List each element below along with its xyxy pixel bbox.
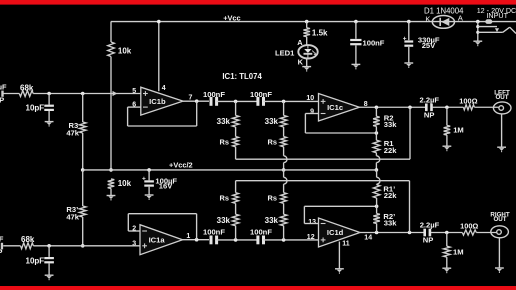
svg-text:+: + (142, 175, 146, 182)
svg-text:5: 5 (132, 88, 136, 95)
svg-text:Rs: Rs (268, 194, 277, 203)
svg-text:2.2µF: 2.2µF (420, 96, 440, 105)
svg-text:22k: 22k (384, 191, 397, 200)
svg-text:16V: 16V (159, 181, 173, 190)
svg-text:NP: NP (423, 236, 434, 245)
svg-text:K: K (425, 14, 430, 23)
svg-text:10k: 10k (118, 47, 132, 56)
svg-text:22k: 22k (384, 146, 397, 155)
svg-text:NP: NP (424, 111, 435, 120)
svg-text:68k: 68k (21, 235, 35, 244)
svg-text:10pF: 10pF (26, 256, 45, 265)
svg-text:Rs: Rs (220, 194, 229, 203)
svg-text:IC1a: IC1a (149, 235, 166, 244)
svg-text:K: K (298, 57, 304, 66)
svg-text:100Ω: 100Ω (459, 96, 477, 105)
svg-text:1M: 1M (453, 247, 464, 256)
svg-text:D1 1N4004: D1 1N4004 (424, 7, 464, 16)
svg-text:IP: IP (0, 96, 4, 105)
svg-text:100nF: 100nF (250, 90, 272, 99)
svg-text:OUT: OUT (495, 94, 508, 101)
svg-text:IC1: TL074: IC1: TL074 (222, 72, 262, 81)
svg-text:Rs: Rs (268, 138, 277, 147)
svg-text:100Ω: 100Ω (460, 222, 478, 231)
svg-text:33k: 33k (384, 219, 397, 228)
svg-text:100nF: 100nF (250, 227, 272, 236)
svg-text:1.5k: 1.5k (312, 29, 328, 38)
svg-text:33k: 33k (265, 216, 279, 225)
svg-text:33k: 33k (217, 117, 231, 126)
svg-text:+Vcc: +Vcc (223, 14, 240, 23)
svg-text:47k: 47k (66, 129, 79, 138)
svg-text:12: 12 (307, 234, 315, 241)
svg-text:2.2µF: 2.2µF (0, 234, 4, 243)
svg-text:100nF: 100nF (203, 90, 225, 99)
svg-text:47k: 47k (66, 213, 79, 222)
svg-text:33k: 33k (384, 120, 397, 129)
svg-text:25V: 25V (422, 41, 436, 50)
svg-text:1M: 1M (453, 125, 464, 134)
svg-text:Rs: Rs (220, 138, 229, 147)
svg-text:14: 14 (364, 235, 372, 242)
svg-text:OUT: OUT (493, 216, 506, 223)
svg-text:33k: 33k (217, 216, 231, 225)
svg-text:+: + (403, 35, 407, 42)
svg-text:1: 1 (186, 233, 190, 240)
svg-text:10: 10 (306, 95, 314, 102)
svg-text:33k: 33k (265, 117, 279, 126)
svg-text:2.2µF: 2.2µF (0, 82, 7, 91)
svg-text:100nF: 100nF (203, 227, 225, 236)
svg-text:13: 13 (308, 219, 316, 226)
svg-text:9: 9 (310, 109, 314, 116)
svg-text:INPUT: INPUT (486, 11, 508, 20)
svg-text:IC1b: IC1b (149, 97, 166, 106)
svg-text:LED1: LED1 (275, 48, 295, 57)
svg-text:7: 7 (189, 94, 193, 101)
svg-text:IC1d: IC1d (327, 228, 344, 237)
svg-text:10pF: 10pF (26, 104, 45, 113)
svg-text:2.2µF: 2.2µF (420, 221, 440, 230)
svg-text:IP: IP (0, 248, 2, 257)
svg-text:10k: 10k (118, 179, 132, 188)
svg-text:IC1c: IC1c (327, 103, 343, 112)
svg-text:+Vcc/2: +Vcc/2 (169, 161, 193, 170)
svg-text:100nF: 100nF (363, 38, 385, 47)
svg-text:4: 4 (162, 85, 166, 92)
svg-text:68k: 68k (20, 83, 34, 92)
svg-text:11: 11 (342, 240, 350, 247)
